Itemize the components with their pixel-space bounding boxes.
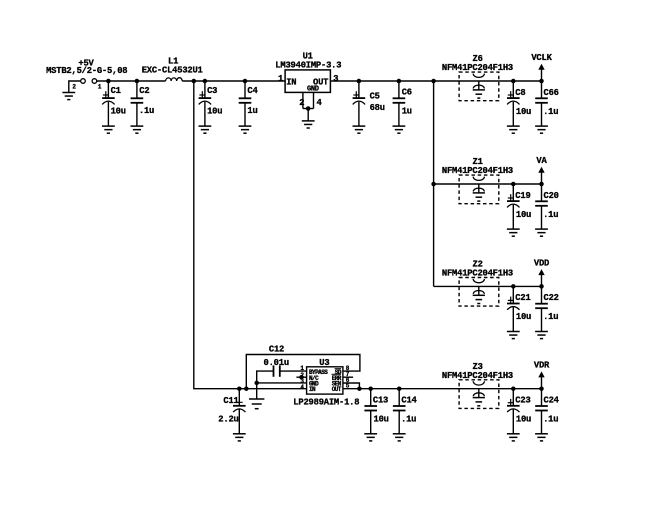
wire C12 to GND pin	[257, 371, 274, 383]
ground (connector pin 2)	[62, 93, 75, 100]
svg-text:OUT: OUT	[332, 386, 342, 393]
capacitor C21 (polarized)	[507, 286, 520, 338]
pin name IN (U1)	[286, 77, 296, 87]
svg-text:IN: IN	[286, 77, 296, 87]
filter Z2 (NFM41PC204F1H3)	[459, 278, 499, 307]
label L1	[168, 57, 178, 67]
label C20	[544, 191, 559, 201]
node N/C stub dot	[299, 375, 304, 380]
svg-text:C20: C20	[544, 191, 559, 201]
pin number 4 (U3)	[300, 384, 304, 391]
net label VDD	[534, 258, 549, 268]
label C22	[544, 293, 559, 303]
node branch to Z1/Z2	[431, 79, 436, 84]
node C22 junction	[539, 284, 544, 289]
capacitor C20	[535, 184, 548, 236]
value 0.01u (C12)	[264, 358, 289, 368]
node C4 junction	[243, 79, 248, 84]
filter Z3 (NFM41PC204F1H3)	[459, 380, 499, 409]
pin number 5 (U3)	[346, 383, 350, 390]
pin number 4 (U1)	[317, 98, 323, 108]
pin number 2 (U3)	[300, 372, 304, 379]
value 10u (C13)	[374, 415, 389, 425]
ground (U1)	[302, 121, 315, 128]
svg-text:VA: VA	[536, 156, 547, 166]
label U3	[319, 358, 329, 368]
capacitor C6	[393, 81, 406, 133]
value 10u (C3)	[207, 106, 222, 116]
svg-text:1u: 1u	[247, 106, 257, 116]
svg-text:C23: C23	[515, 396, 530, 406]
svg-text:.1u: .1u	[543, 312, 558, 322]
value EXC-CL4532U1	[142, 66, 203, 76]
net label VCLK	[531, 53, 552, 63]
value NFM41PC204F1H3 (Z2)	[442, 269, 513, 279]
value .1u (C2)	[139, 106, 154, 116]
capacitor C13	[364, 389, 377, 441]
node C2 junction	[135, 79, 140, 84]
value 1u (C4)	[247, 106, 257, 116]
node SEN junction	[357, 386, 362, 391]
capacitor C66	[535, 81, 548, 133]
svg-text:C5: C5	[370, 92, 380, 102]
pin number 8 (U3)	[346, 365, 350, 372]
node C11 junction	[237, 386, 242, 391]
pin name OUT (U1)	[313, 77, 329, 87]
pin name ERR (U3)	[332, 374, 342, 382]
wire pin2 to ground	[69, 81, 81, 93]
capacitor C4	[239, 81, 252, 133]
wire +5V rail (pin1 to L1)	[97, 80, 166, 82]
connector X1 value label	[46, 66, 127, 76]
node C23 junction	[511, 386, 516, 391]
wire VA row rail	[434, 183, 542, 185]
svg-text:C66: C66	[544, 88, 559, 98]
label C3	[207, 86, 217, 96]
power arrow VDR	[538, 371, 544, 388]
node C24 junction	[539, 386, 544, 391]
node C19 junction	[511, 182, 516, 187]
node C1 junction	[106, 79, 111, 84]
ground (U3/C12)	[249, 399, 264, 409]
pin number 7 (U3)	[346, 371, 350, 378]
capacitor C3 (polarized)	[199, 81, 212, 133]
svg-text:EXC-CL4532U1: EXC-CL4532U1	[142, 66, 203, 76]
label C12	[269, 345, 284, 355]
label C24	[544, 396, 560, 406]
label C1	[111, 86, 121, 96]
svg-text:1: 1	[278, 74, 283, 84]
svg-text:NFM41PC204F1H3: NFM41PC204F1H3	[442, 63, 513, 73]
svg-text:1u: 1u	[402, 106, 412, 116]
value 10u (C21)	[516, 312, 531, 322]
svg-text:C13: C13	[373, 396, 388, 406]
wire U1 pins 2,4 to ground	[303, 92, 314, 108]
svg-text:68u: 68u	[370, 103, 385, 113]
pin name IN (U3)	[309, 386, 316, 393]
svg-text:C6: C6	[402, 87, 412, 97]
svg-text:10u: 10u	[374, 415, 389, 425]
svg-text:C24: C24	[544, 396, 560, 406]
pin name N/C (U3)	[309, 375, 319, 382]
pin name BYPASS (U3)	[309, 369, 328, 376]
pin number 6 (U3)	[346, 377, 350, 384]
power flag +5V	[78, 59, 94, 69]
svg-text:C1: C1	[111, 86, 121, 96]
value .1u (C22)	[543, 312, 558, 322]
wire U3 SEN to OUT	[343, 383, 360, 389]
label C13	[373, 396, 388, 406]
svg-text:VCLK: VCLK	[531, 53, 552, 63]
pin name SEN (U3)	[332, 380, 342, 387]
svg-text:10u: 10u	[516, 415, 531, 425]
power arrow VA	[538, 167, 544, 184]
node C66 junction	[539, 79, 544, 84]
label C19	[515, 191, 530, 201]
svg-text:10u: 10u	[516, 210, 531, 220]
label Z6	[473, 54, 483, 64]
label C66	[544, 88, 559, 98]
capacitor C12	[274, 365, 280, 376]
label C8	[515, 88, 525, 98]
capacitor C1 (polarized)	[102, 81, 115, 133]
node C5 junction	[357, 79, 362, 84]
svg-text:U3: U3	[319, 358, 329, 368]
svg-text:3: 3	[333, 74, 338, 84]
svg-text:IN: IN	[309, 386, 316, 393]
value NFM41PC204F1H3 (Z1)	[442, 166, 513, 176]
svg-text:C4: C4	[247, 86, 258, 96]
svg-text:.1u: .1u	[543, 415, 558, 425]
wire U3 OUT rail	[343, 388, 542, 390]
capacitor C5 (polarized)	[353, 81, 366, 133]
svg-text:C11: C11	[223, 396, 238, 406]
svg-text:2.2u: 2.2u	[218, 415, 238, 425]
value 10u (C23)	[516, 415, 531, 425]
svg-text:10u: 10u	[207, 106, 222, 116]
pin number 1	[98, 83, 102, 90]
pin name GND (U3)	[309, 380, 319, 387]
power arrow VDD	[538, 269, 544, 286]
svg-text:VDD: VDD	[534, 258, 549, 268]
svg-text:10u: 10u	[111, 106, 126, 116]
value 10u (C8)	[516, 107, 531, 117]
capacitor C19 (polarized)	[507, 184, 520, 236]
value .1u (C66)	[543, 107, 558, 117]
value NFM41PC204F1H3 (Z6)	[442, 63, 513, 73]
svg-text:.1u: .1u	[543, 210, 558, 220]
value LM3940IMP-3.3	[275, 61, 341, 71]
node C14 junction	[397, 386, 402, 391]
pin name SD (U3)	[335, 369, 342, 377]
inductor L1	[166, 78, 183, 81]
svg-text:MSTB2,5/2-G-5,08: MSTB2,5/2-G-5,08	[46, 66, 127, 76]
wire to U1 ground	[307, 109, 309, 121]
pin number 2 (U1)	[299, 98, 304, 108]
pin number 2	[72, 84, 76, 91]
svg-text:C21: C21	[515, 293, 530, 303]
node C6 junction	[397, 79, 402, 84]
label Z1	[473, 157, 483, 167]
wire U3 ERR stub	[343, 376, 353, 378]
svg-text:C3: C3	[207, 86, 217, 96]
svg-text:LP2989AIM-1.8: LP2989AIM-1.8	[293, 397, 359, 407]
filter Z6 (NFM41PC204F1H3)	[459, 72, 499, 101]
op-amp U1 body	[285, 70, 330, 93]
node SD pullup junction	[244, 386, 249, 391]
label C23	[515, 396, 530, 406]
node C13 junction	[368, 386, 373, 391]
node C20 junction	[539, 182, 544, 187]
connector X1 pin 2	[81, 79, 86, 84]
value 10u (C19)	[516, 210, 531, 220]
capacitor C23 (polarized)	[507, 389, 520, 441]
label C21	[515, 293, 530, 303]
value 10u (C1)	[111, 106, 126, 116]
wire U3 N/C stub	[296, 376, 306, 378]
svg-text:4: 4	[300, 384, 304, 391]
capacitor C11 (polarized)	[233, 389, 246, 441]
label C2	[139, 86, 149, 96]
op-amp U3 body	[307, 367, 343, 394]
pin number 1 (U3)	[300, 365, 304, 372]
svg-text:C14: C14	[401, 396, 417, 406]
value NFM41PC204F1H3 (Z3)	[442, 371, 513, 381]
svg-text:.1u: .1u	[139, 106, 154, 116]
svg-text:NFM41PC204F1H3: NFM41PC204F1H3	[442, 166, 513, 176]
svg-text:C12: C12	[269, 345, 284, 355]
node U3 ground junction	[254, 381, 259, 386]
svg-text:C8: C8	[515, 88, 525, 98]
power arrow VCLK	[538, 64, 544, 81]
wire U1 OUT to VCLK column	[330, 80, 541, 82]
svg-text:NFM41PC204F1H3: NFM41PC204F1H3	[442, 371, 513, 381]
filter Z1 (NFM41PC204F1H3)	[459, 175, 499, 204]
label U1	[303, 52, 313, 62]
wire U3 GND pin	[257, 382, 307, 384]
value .1u (C24)	[543, 415, 558, 425]
svg-text:1: 1	[98, 83, 102, 90]
svg-text:VDR: VDR	[534, 361, 550, 371]
pin number 3 (U3)	[300, 378, 304, 385]
svg-text:C22: C22	[544, 293, 559, 303]
wire VDD row rail	[434, 285, 542, 287]
wire 3.3V vertical branch	[433, 81, 435, 286]
node VA row tee	[431, 182, 436, 187]
node C8 junction	[511, 79, 516, 84]
svg-text:.1u: .1u	[401, 415, 416, 425]
capacitor C2	[131, 81, 144, 133]
svg-text:10u: 10u	[516, 107, 531, 117]
node C21 junction	[511, 284, 516, 289]
svg-text:GND: GND	[307, 85, 319, 93]
node U1 ground junction	[306, 106, 311, 111]
value .1u (C14)	[401, 415, 416, 425]
label C11	[223, 396, 238, 406]
label C4	[247, 86, 258, 96]
wire L1 to U1 IN	[182, 80, 285, 82]
pin number 1 (U1 IN)	[278, 74, 283, 84]
pin name GND (U1)	[307, 85, 319, 93]
label C14	[401, 396, 417, 406]
node C3 junction	[203, 79, 208, 84]
capacitor C14	[393, 389, 406, 441]
label Z3	[473, 362, 483, 372]
value LP2989AIM-1.8	[293, 397, 359, 407]
wire BYPASS to C12	[280, 370, 307, 372]
wire input drop to U3	[194, 81, 307, 389]
node L1/U3 branch junction	[192, 79, 197, 84]
net label VA	[536, 156, 547, 166]
value 68u (C5)	[370, 103, 385, 113]
svg-text:2: 2	[299, 98, 304, 108]
value 1u (C6)	[402, 106, 412, 116]
svg-text:.1u: .1u	[543, 107, 558, 117]
svg-text:NFM41PC204F1H3: NFM41PC204F1H3	[442, 269, 513, 279]
svg-text:LM3940IMP-3.3: LM3940IMP-3.3	[275, 61, 341, 71]
label Z2	[473, 260, 483, 270]
label C6	[402, 87, 412, 97]
svg-text:C19: C19	[515, 191, 530, 201]
value .1u (C20)	[543, 210, 558, 220]
pin name OUT (U3)	[332, 386, 342, 393]
svg-text:10u: 10u	[516, 312, 531, 322]
value 2.2u (C11)	[218, 415, 238, 425]
svg-text:C2: C2	[139, 86, 149, 96]
capacitor C22	[535, 286, 548, 338]
net label VDR	[534, 361, 550, 371]
label C5	[370, 92, 380, 102]
svg-text:2: 2	[72, 84, 76, 91]
wire to U3 ground	[256, 383, 258, 399]
connector X1 pin 1	[92, 79, 97, 84]
wire SD pull-up loop	[246, 355, 360, 389]
svg-text:0.01u: 0.01u	[264, 358, 289, 368]
pin number 3 (U1 OUT)	[333, 74, 338, 84]
capacitor C24	[535, 389, 548, 441]
capacitor C8 (polarized)	[507, 81, 520, 133]
